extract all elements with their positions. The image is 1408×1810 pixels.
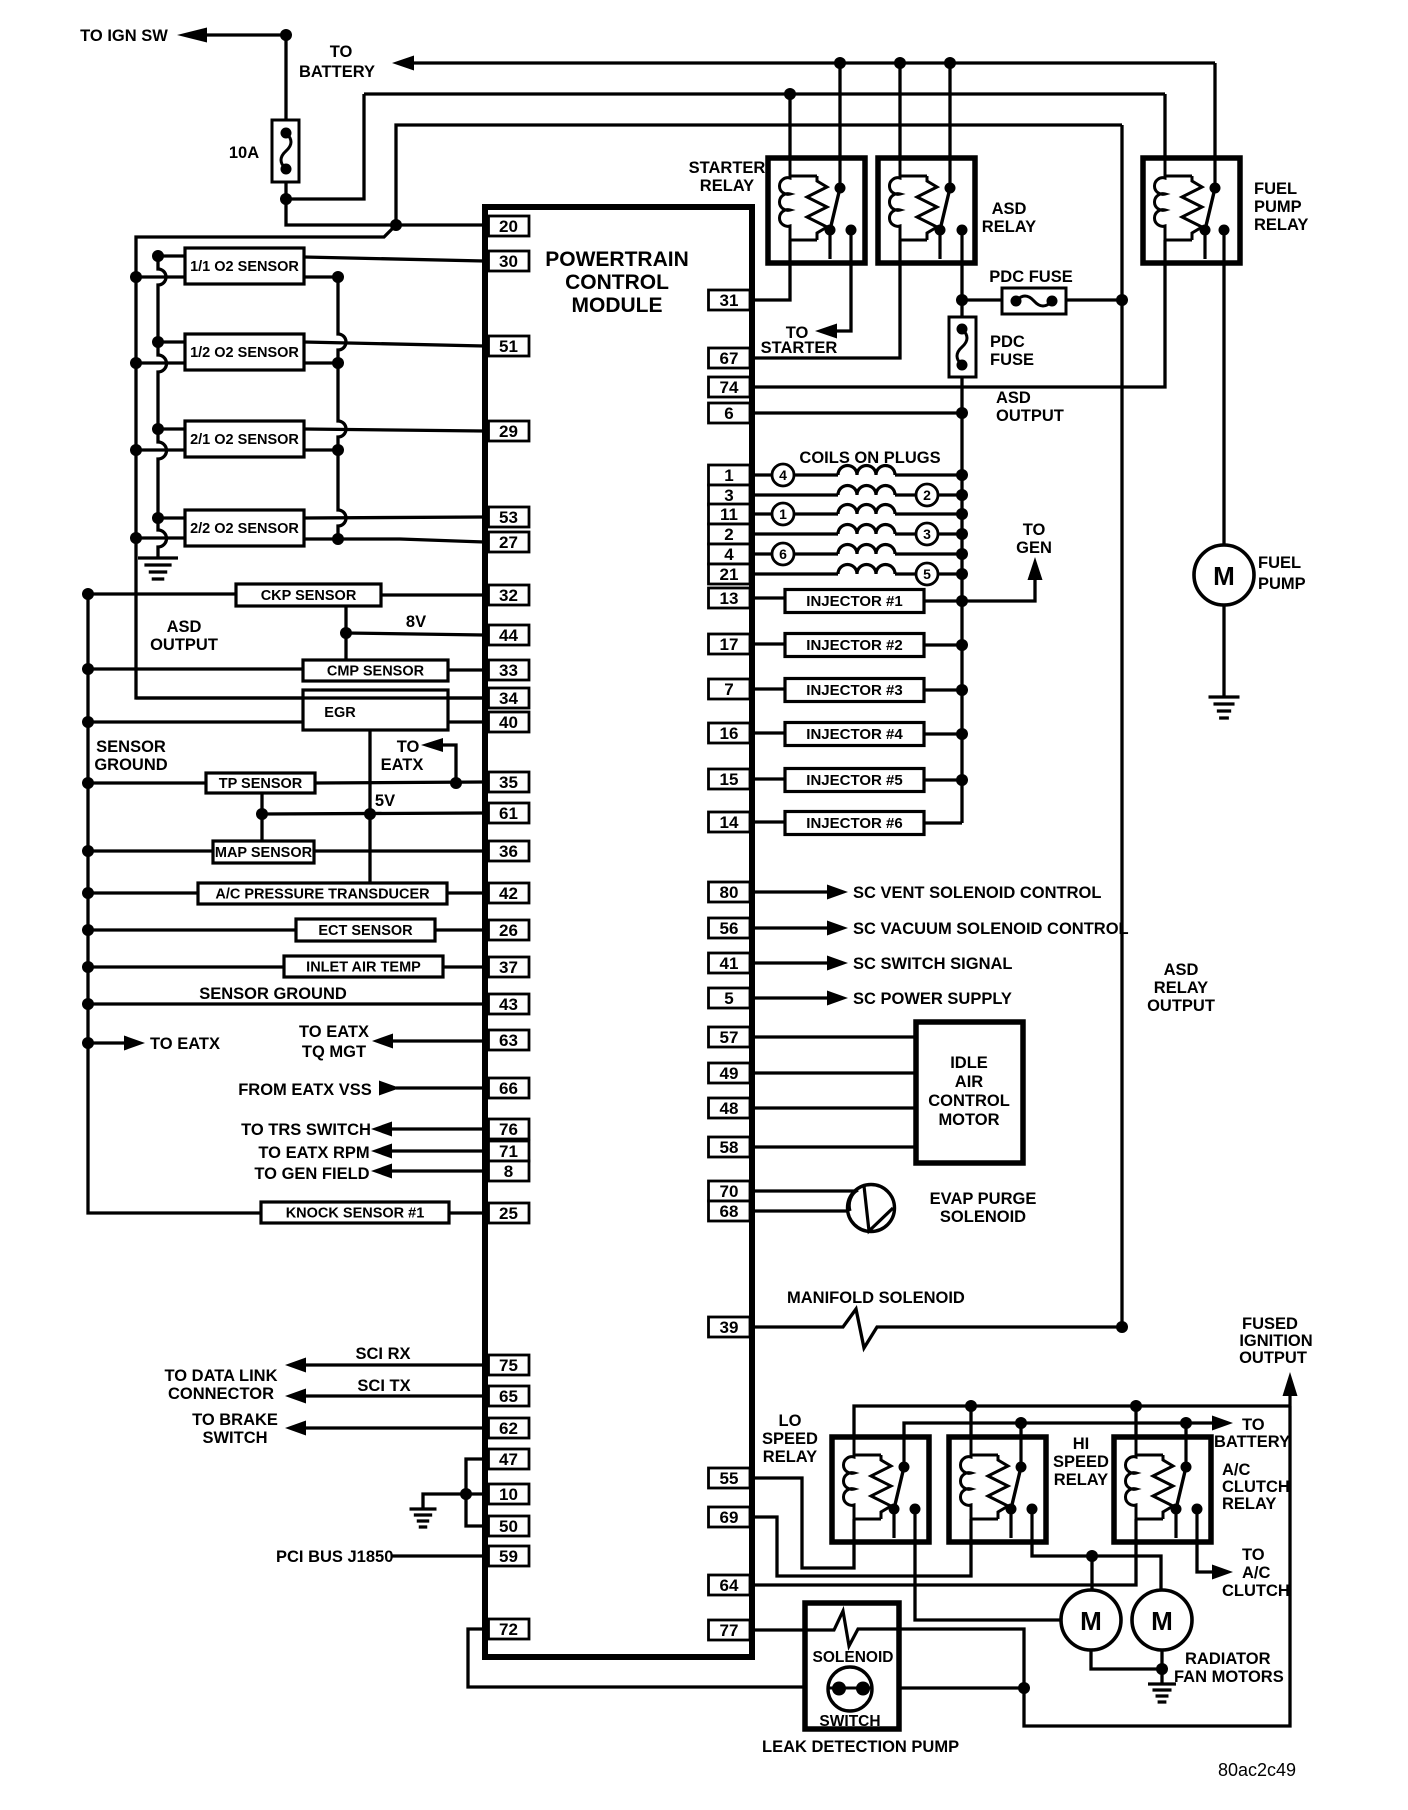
- LDP solenoid element: [806, 1611, 897, 1646]
- svg-text:A/C: A/C: [1242, 1564, 1271, 1582]
- relay fuel pump coil: [1154, 158, 1165, 240]
- relay starter coil bottom lead: [788, 240, 791, 263]
- wire HI relay coil feed: [969, 1406, 972, 1437]
- wire pin 14 to injector 6: [750, 820, 785, 823]
- wire A/C relay switch feed: [1184, 1423, 1187, 1437]
- wire pin to SC switch: [750, 961, 827, 964]
- wire pin 31 to starter relay coil: [750, 263, 790, 300]
- EGR valve: [303, 690, 448, 730]
- wire 1/2 O2 to ground rail: [158, 340, 185, 343]
- pin 27: [489, 532, 530, 552]
- relay starter resistor: [807, 176, 827, 240]
- svg-text:76: 76: [499, 1120, 518, 1139]
- arrow SCI TX to data link: [285, 1389, 306, 1404]
- wire pin 4 to coil 6: [750, 552, 772, 555]
- relay LO speed resistor: [871, 1455, 891, 1519]
- wire TP to 5V rail: [260, 793, 263, 814]
- wire pins 47/10/50 ground bracket: [466, 1459, 486, 1526]
- svg-text:EGR: EGR: [324, 705, 356, 721]
- wire injector 3 to rail: [924, 688, 962, 691]
- wire sensor ground to pin 43: [88, 1002, 484, 1005]
- wire 5V to A/C transducer: [368, 814, 371, 883]
- svg-text:61: 61: [499, 804, 518, 823]
- svg-text:37: 37: [499, 958, 518, 977]
- radiator fan motor 1: [1061, 1590, 1121, 1650]
- pin 21: [709, 564, 751, 584]
- svg-text:CMP SENSOR: CMP SENSOR: [327, 664, 425, 680]
- svg-text:10A: 10A: [229, 144, 259, 162]
- pin 31: [709, 290, 751, 310]
- relay HI speed blade contact: [1006, 1504, 1017, 1515]
- svg-text:68: 68: [720, 1202, 739, 1221]
- wire pin 70 to EVAP solenoid: [750, 1189, 858, 1192]
- pin 14: [709, 812, 751, 832]
- svg-text:2/2 O2 SENSOR: 2/2 O2 SENSOR: [190, 521, 299, 537]
- relay A/C clutch switch output lead: [1195, 1509, 1198, 1542]
- junction ground rail CMP: [82, 663, 94, 675]
- arrow to starter: [815, 324, 837, 339]
- relay A/C clutch coil: [1125, 1437, 1136, 1519]
- wire sensor ground rail: [88, 594, 261, 1213]
- wire injector 2 to rail: [924, 643, 962, 646]
- svg-text:TP SENSOR: TP SENSOR: [219, 776, 303, 792]
- junction fuse output: [280, 193, 292, 205]
- svg-text:INJECTOR #2: INJECTOR #2: [806, 637, 902, 654]
- relay starter switch blade: [830, 188, 840, 230]
- pin 70: [709, 1181, 751, 1201]
- wire starter relay switch to starter: [836, 263, 851, 331]
- arrow to GEN: [1028, 557, 1043, 580]
- wire pin 11 to coil 1: [750, 512, 772, 515]
- wire EGR to 5V rail: [368, 730, 371, 814]
- relay starter switch common lead: [838, 158, 841, 188]
- svg-text:36: 36: [499, 842, 518, 861]
- svg-text:INJECTOR #5: INJECTOR #5: [806, 772, 902, 789]
- pin 80: [709, 882, 751, 902]
- svg-text:FUEL: FUEL: [1258, 554, 1301, 572]
- svg-text:BATTERY: BATTERY: [1214, 1433, 1290, 1451]
- junction injector 3: [956, 684, 968, 696]
- wire EGR to rail: [88, 720, 303, 723]
- arrow to GEN field: [371, 1164, 392, 1179]
- wire to EATX (pin35 branch): [430, 745, 456, 783]
- junction battery line / starter switch: [834, 57, 846, 69]
- svg-text:35: 35: [499, 773, 518, 792]
- CMP sensor: [303, 660, 448, 681]
- wire injector 4 to rail: [924, 732, 962, 735]
- relay LO speed coil bottom lead: [852, 1519, 855, 1542]
- svg-text:PDC FUSE: PDC FUSE: [989, 268, 1072, 286]
- svg-text:GEN: GEN: [1016, 539, 1052, 557]
- junction 1/2 O2 ground: [152, 336, 164, 348]
- svg-text:SOLENOID: SOLENOID: [940, 1208, 1026, 1226]
- svg-text:6: 6: [779, 546, 787, 562]
- arrow SC vent: [827, 885, 848, 900]
- pin 32: [489, 585, 530, 605]
- svg-text:SENSOR: SENSOR: [96, 738, 166, 756]
- wire 2/1 O2 to ASD rail: [136, 448, 185, 451]
- A/C pressure transducer: [198, 883, 447, 904]
- svg-text:SWITCH: SWITCH: [819, 1713, 880, 1730]
- relay HI speed bottom bar: [971, 1518, 998, 1521]
- wire coil row 4 to rail: [895, 552, 962, 555]
- relay LO speed switch common lead: [902, 1437, 905, 1467]
- wire ECT to rail: [88, 928, 296, 931]
- wire injector 1 to rail: [924, 599, 962, 602]
- svg-text:FUEL: FUEL: [1254, 180, 1297, 198]
- wire PCI BUS J1850 to pin 59: [392, 1554, 486, 1557]
- wire 1/1 O2 to right rail: [304, 275, 338, 278]
- svg-text:ECT SENSOR: ECT SENSOR: [318, 923, 413, 939]
- pin 50: [489, 1516, 530, 1536]
- svg-text:INJECTOR #4: INJECTOR #4: [806, 726, 903, 743]
- junction coil row 11: [956, 508, 968, 520]
- svg-text:33: 33: [499, 661, 518, 680]
- pin 5: [709, 988, 751, 1008]
- pin 2: [709, 524, 751, 544]
- relay LO speed switch output lead: [913, 1509, 916, 1542]
- wire pin 7 to injector 3: [750, 687, 785, 690]
- junction ground rail ECT: [82, 924, 94, 936]
- wire pin 34 through EGR box: [303, 696, 448, 699]
- svg-text:SPEED: SPEED: [762, 1430, 818, 1448]
- pin 29: [489, 421, 530, 441]
- relay HI speed output contact: [1027, 1504, 1038, 1515]
- junction relay feed / AC coil: [1130, 1400, 1142, 1412]
- pin 75: [489, 1355, 530, 1375]
- pin 74: [709, 377, 751, 397]
- junction LDP return: [1018, 1682, 1030, 1694]
- arrow to battery (bottom): [1212, 1416, 1233, 1431]
- wire fused ignition return rail: [1024, 1406, 1290, 1726]
- junction PDC fuse / rail x1122: [1116, 294, 1128, 306]
- wire starter relay coil feed: [788, 94, 791, 178]
- wire pin 17 to injector 2: [750, 642, 785, 645]
- junction 1/1 O2 right rail: [332, 271, 344, 283]
- pin 35: [489, 772, 530, 792]
- relay starter common contact: [835, 183, 846, 194]
- relay ASD coil: [889, 158, 900, 240]
- svg-text:RELAY: RELAY: [982, 218, 1036, 236]
- pin 10: [489, 1484, 530, 1504]
- svg-text:62: 62: [499, 1419, 518, 1438]
- junction 1/1 O2 ASD rail: [130, 271, 142, 283]
- svg-text:8V: 8V: [406, 613, 426, 631]
- pin 8: [489, 1161, 530, 1181]
- arrowhead fused ignition output: [1283, 1372, 1298, 1396]
- wire ASD relay switch feed: [948, 63, 951, 190]
- PDC fuse v top contact: [957, 324, 968, 335]
- svg-text:SC POWER SUPPLY: SC POWER SUPPLY: [853, 990, 1012, 1008]
- svg-text:80: 80: [720, 883, 739, 902]
- wire left fan motor feed: [1090, 1556, 1093, 1590]
- svg-text:INJECTOR #3: INJECTOR #3: [806, 682, 902, 699]
- svg-text:SCI RX: SCI RX: [355, 1345, 410, 1363]
- ground (pin 10): [410, 1509, 437, 1527]
- arrow to EATX (pin35): [421, 738, 443, 752]
- wire coil row 11 to rail: [895, 512, 962, 515]
- svg-text:OUTPUT: OUTPUT: [150, 636, 218, 654]
- O2 sensor 1/2: [185, 334, 304, 370]
- svg-text:65: 65: [499, 1387, 518, 1406]
- wire injector 5 to rail: [924, 778, 962, 781]
- relay ASD switch blade: [940, 188, 950, 230]
- svg-text:AIR: AIR: [955, 1073, 984, 1091]
- svg-text:66: 66: [499, 1079, 518, 1098]
- svg-text:14: 14: [720, 813, 739, 832]
- junction injector 5: [956, 774, 968, 786]
- wire to battery (y=63): [413, 61, 1215, 64]
- junction coil row 3: [956, 489, 968, 501]
- relay A/C clutch switch common lead: [1184, 1437, 1187, 1467]
- svg-text:57: 57: [720, 1028, 739, 1047]
- wire junction to riser x364: [286, 94, 364, 199]
- svg-text:80ac2c49: 80ac2c49: [1218, 1760, 1296, 1780]
- pin 15: [709, 769, 751, 789]
- arrow to TRS switch: [371, 1122, 392, 1137]
- wire pin 77 to LDP solenoid: [750, 1628, 834, 1631]
- wire starter relay switch feed: [838, 63, 841, 190]
- svg-text:RADIATOR: RADIATOR: [1185, 1650, 1271, 1668]
- pin 69: [709, 1507, 751, 1527]
- pin 37: [489, 957, 530, 977]
- relay starter coil: [779, 158, 790, 240]
- relay A/C clutch common contact: [1181, 1462, 1192, 1473]
- pin 1: [709, 465, 751, 485]
- relay fuel pump blade contact stub: [1203, 230, 1206, 259]
- svg-text:16: 16: [720, 724, 739, 743]
- svg-text:SC VENT SOLENOID CONTROL: SC VENT SOLENOID CONTROL: [853, 884, 1101, 902]
- arrow to battery: [392, 56, 414, 71]
- junction fan motor feed: [1086, 1550, 1098, 1562]
- svg-text:TO TRS SWITCH: TO TRS SWITCH: [241, 1121, 371, 1139]
- svg-text:67: 67: [720, 349, 739, 368]
- svg-text:SENSOR GROUND: SENSOR GROUND: [199, 985, 347, 1003]
- injector #3: [785, 679, 924, 702]
- cylinder number 6: [772, 543, 794, 565]
- wire EGR to pin 34: [136, 696, 484, 699]
- relay A/C clutch bottom bar: [1136, 1518, 1163, 1521]
- pin 25: [489, 1203, 530, 1223]
- wire coil to circle 5: [895, 572, 916, 575]
- ground (fan motors): [1148, 1684, 1176, 1702]
- O2 sensor 2/1: [185, 421, 304, 457]
- wire to EATX stub: [88, 1041, 126, 1044]
- wire pin 63 to EATX TQ MGT: [391, 1039, 484, 1042]
- svg-text:TQ MGT: TQ MGT: [302, 1043, 366, 1061]
- relay A/C clutch outline: [1114, 1437, 1211, 1542]
- svg-text:EATX: EATX: [381, 756, 424, 774]
- ECT sensor: [296, 919, 435, 941]
- pin 16: [709, 723, 751, 743]
- relay HI speed switch output lead: [1030, 1509, 1033, 1542]
- svg-text:FUSED: FUSED: [1242, 1315, 1298, 1333]
- junction ground rail transducer: [82, 887, 94, 899]
- junction 1/1 O2 ground: [152, 250, 164, 262]
- wire LO relay switch feed / to battery: [904, 1423, 1212, 1437]
- junction ground rail CKP: [82, 588, 94, 600]
- fuse 10A bottom contact: [281, 164, 292, 175]
- wire pin 57 to IAC motor: [750, 1035, 916, 1038]
- pin 62: [489, 1418, 530, 1438]
- pin 55: [709, 1468, 751, 1488]
- PDC fuse (horizontal) body: [1002, 288, 1066, 314]
- svg-text:59: 59: [499, 1547, 518, 1566]
- svg-text:1/2 O2 SENSOR: 1/2 O2 SENSOR: [190, 345, 299, 361]
- relay ASD outline: [878, 158, 975, 263]
- junction 2/2 O2 right rail: [332, 533, 344, 545]
- svg-text:IDLE: IDLE: [950, 1054, 988, 1072]
- pin 13: [709, 588, 751, 608]
- junction battery line / ASD coil: [894, 57, 906, 69]
- TP sensor: [206, 773, 315, 793]
- injector #2: [785, 634, 924, 657]
- cylinder number 3: [916, 523, 938, 545]
- relay ASD switch output lead: [960, 230, 963, 263]
- junction 2/1 O2 ground: [152, 423, 164, 435]
- relay LO speed bottom bar: [854, 1518, 881, 1521]
- pin 65: [489, 1386, 530, 1406]
- svg-text:25: 25: [499, 1204, 518, 1223]
- relay LO speed switch blade: [894, 1467, 904, 1509]
- junction ign sw / fuse: [280, 29, 292, 41]
- pin 76: [489, 1119, 530, 1139]
- junction injector 4: [956, 728, 968, 740]
- svg-text:TO: TO: [1242, 1546, 1265, 1564]
- junction 2/1 O2 ASD rail: [130, 444, 142, 456]
- wire SCI TX to pin 65: [304, 1394, 484, 1397]
- ignition coil on plug (row pin 1): [838, 466, 895, 476]
- injector #5: [785, 769, 924, 792]
- PDC fuse v element: [957, 329, 967, 365]
- wire pin 72 to LDP switch: [468, 1629, 830, 1687]
- wire circle 3 to rail: [938, 532, 962, 535]
- relay HI speed blade contact stub: [1009, 1509, 1012, 1538]
- pin 63: [489, 1030, 530, 1050]
- wire pin 2 to coil: [750, 532, 838, 535]
- svg-text:30: 30: [499, 252, 518, 271]
- wire pin 15 to injector 5: [750, 777, 785, 780]
- svg-text:8: 8: [504, 1162, 513, 1181]
- svg-text:M: M: [1151, 1606, 1173, 1636]
- relay LO speed output contact: [910, 1504, 921, 1515]
- junction coil row 2: [956, 528, 968, 540]
- junction ground rail TP: [82, 777, 94, 789]
- wire 1/1 O2 to ASD rail: [136, 275, 185, 278]
- relay HI speed switch common lead: [1019, 1437, 1022, 1467]
- relay starter blade contact: [825, 225, 836, 236]
- pin 49: [709, 1063, 751, 1083]
- svg-text:SCI TX: SCI TX: [357, 1377, 410, 1395]
- knock sensor #1: [261, 1202, 449, 1223]
- svg-text:RELAY: RELAY: [1054, 1471, 1108, 1489]
- arrow SCI RX to data link: [285, 1358, 306, 1373]
- pin 40: [489, 712, 530, 732]
- relay ASD bottom bar: [900, 239, 927, 242]
- svg-text:TO GEN FIELD: TO GEN FIELD: [254, 1165, 369, 1183]
- svg-text:17: 17: [720, 635, 739, 654]
- svg-text:MOTOR: MOTOR: [938, 1111, 999, 1129]
- wire battery feed B (y=94): [364, 92, 1165, 95]
- wire fuel pump relay coil feed: [1163, 94, 1166, 178]
- wire coil to circle 3: [895, 532, 916, 535]
- svg-text:34: 34: [499, 689, 518, 708]
- pin 4: [709, 544, 751, 564]
- radiator fan motor 2: [1132, 1590, 1192, 1650]
- junction ground rail EGR: [82, 716, 94, 728]
- wire pin 58 to IAC motor: [750, 1145, 916, 1148]
- relay ASD blade contact: [935, 225, 946, 236]
- powertrain control module outline: [485, 207, 752, 1657]
- pin 7: [709, 679, 751, 699]
- wire HI relay output to fan motors: [1032, 1542, 1161, 1590]
- svg-text:3: 3: [923, 526, 931, 542]
- pin 51: [489, 336, 530, 356]
- relay LO speed coil: [843, 1437, 854, 1519]
- svg-text:TO EATX RPM: TO EATX RPM: [258, 1144, 369, 1162]
- relay starter output contact: [846, 225, 857, 236]
- wire coil row 1 to rail: [895, 473, 962, 476]
- relay fuel pump outline: [1143, 158, 1240, 263]
- svg-text:10: 10: [499, 1485, 518, 1504]
- wire injector 6 to rail: [924, 821, 962, 824]
- wire fuel pump relay switch feed: [1213, 63, 1216, 190]
- MAP sensor: [213, 841, 314, 863]
- relay LO speed blade contact: [889, 1504, 900, 1515]
- pin 33: [489, 660, 530, 680]
- wire riser x396 and feed C (y=125): [396, 125, 1122, 225]
- relay A/C clutch resistor: [1153, 1455, 1173, 1519]
- relay fuel pump switch common lead: [1213, 158, 1216, 188]
- svg-text:M: M: [1080, 1606, 1102, 1636]
- relay LO speed common contact: [899, 1462, 910, 1473]
- svg-text:TO: TO: [1242, 1416, 1265, 1434]
- junction 2/2 O2 ground: [152, 512, 164, 524]
- wire fuel pump to ground: [1222, 605, 1225, 697]
- relay HI speed common contact: [1016, 1462, 1027, 1473]
- svg-text:LO: LO: [779, 1412, 802, 1430]
- svg-text:5V: 5V: [375, 792, 395, 810]
- junction ASD output pin 6: [956, 407, 968, 419]
- relay fuel pump common contact: [1210, 183, 1221, 194]
- pin 26: [489, 920, 530, 940]
- injector #4: [785, 723, 924, 746]
- svg-text:A/C PRESSURE TRANSDUCER: A/C PRESSURE TRANSDUCER: [215, 887, 430, 903]
- wire CKP to rail: [88, 592, 236, 595]
- wire 5V to MAP: [260, 814, 263, 842]
- wire knock sensor to pin 25: [449, 1211, 484, 1214]
- svg-text:TO EATX: TO EATX: [150, 1035, 220, 1053]
- svg-text:MODULE: MODULE: [572, 294, 663, 317]
- svg-text:ASD: ASD: [996, 389, 1031, 407]
- wire coil 1 lead: [794, 512, 838, 515]
- ignition coil on plug (row pin 2): [838, 525, 895, 535]
- junction ground rail MAP: [82, 845, 94, 857]
- relay ASD output contact: [957, 225, 968, 236]
- svg-text:1: 1: [779, 506, 787, 522]
- pin 11: [709, 504, 751, 524]
- svg-text:INJECTOR #6: INJECTOR #6: [806, 815, 902, 832]
- wire 2/1 O2 to pin 29: [304, 429, 484, 431]
- pin 36: [489, 841, 530, 861]
- svg-text:58: 58: [720, 1138, 739, 1157]
- svg-text:IGNITION: IGNITION: [1239, 1332, 1312, 1350]
- svg-text:69: 69: [720, 1508, 739, 1527]
- relay starter blade contact stub: [828, 230, 831, 259]
- svg-text:50: 50: [499, 1517, 518, 1536]
- wire pin 62 to brake switch: [304, 1426, 484, 1429]
- svg-text:CLUTCH: CLUTCH: [1222, 1582, 1290, 1600]
